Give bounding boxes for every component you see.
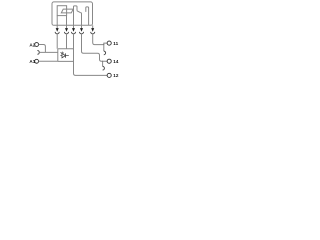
pin 5 plug arrow <box>91 28 94 32</box>
terminal 11 <box>107 41 111 45</box>
wire pin1 to input module <box>56 34 58 49</box>
svg-text:12: 12 <box>113 73 119 78</box>
pin 3 stub <box>73 25 75 28</box>
contact lead 14 <box>80 13 81 26</box>
pin 4 plug socket <box>80 32 84 34</box>
pin 5 plug socket <box>91 32 95 34</box>
wire pin2 to input module <box>66 34 68 49</box>
pin 5 stub <box>92 25 94 28</box>
pin 4 stub <box>81 25 83 28</box>
contact lead 12 <box>74 6 78 25</box>
node junction 14 bridge <box>102 61 103 62</box>
bridge socket at 11 <box>104 51 106 55</box>
relay K1 outline <box>52 2 93 25</box>
wire pin4 to terminal 14 <box>82 34 108 61</box>
bridge socket at 14 <box>103 66 105 70</box>
pin 1 plug socket <box>55 32 59 34</box>
pin 1 plug arrow <box>56 28 59 32</box>
pin 2 stub <box>66 25 68 28</box>
terminal 14 <box>107 59 111 63</box>
input module box <box>58 49 74 62</box>
terminal A2 <box>35 43 39 47</box>
bridge socket stub at 11 <box>103 45 105 52</box>
bridge socket at A2 <box>37 51 39 55</box>
LED D1 cathode bar <box>65 53 67 57</box>
svg-text:14: 14 <box>113 59 119 64</box>
pin 4 plug arrow <box>80 28 83 32</box>
contact blade <box>77 11 80 13</box>
terminal 12 <box>107 73 111 77</box>
bridge socket stub at 14 <box>102 61 104 66</box>
pin 1 stub <box>56 25 58 28</box>
pin 2 plug arrow <box>65 28 68 32</box>
pin 2 plug socket <box>65 32 69 34</box>
LED D1 emission arrows <box>61 52 64 54</box>
coil lead pin1 <box>56 16 58 26</box>
LED D1 lead left <box>60 55 62 57</box>
pin 3 plug socket <box>72 32 76 34</box>
wire pin3 to terminal 12 <box>74 34 108 76</box>
wire A1 to input module <box>39 60 58 62</box>
wire pin5 to terminal 11 <box>93 34 108 45</box>
node junction 11 bridge <box>103 44 104 45</box>
coil lead pin2 <box>66 16 68 26</box>
wire bridge socket to input module <box>39 51 58 53</box>
coil actuator flag <box>61 9 73 13</box>
svg-text:11: 11 <box>113 41 118 46</box>
relay coil <box>57 6 66 16</box>
LED D1 triangle <box>62 53 65 57</box>
LED D1 lead right <box>66 55 69 57</box>
pin 3 plug arrow <box>72 28 75 32</box>
wire A2 to coil node <box>39 45 46 53</box>
terminal A1 <box>35 59 39 63</box>
contact lead 11 <box>86 7 89 25</box>
